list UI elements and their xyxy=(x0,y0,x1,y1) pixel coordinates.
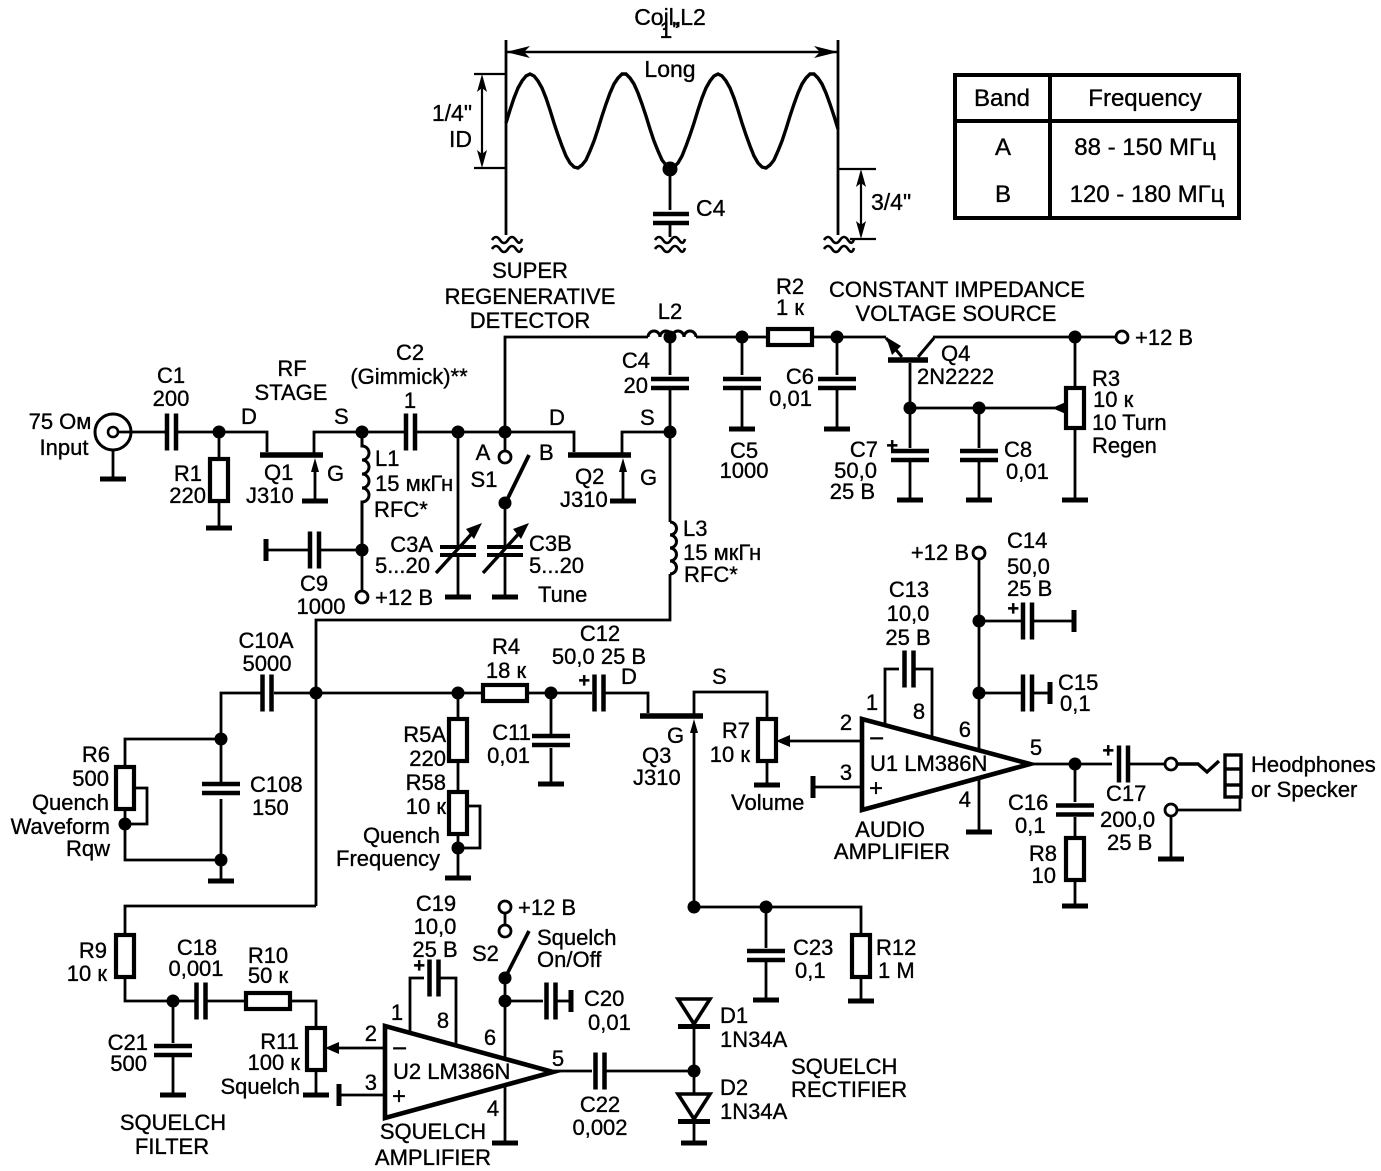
svg-text:On/Off: On/Off xyxy=(537,947,602,972)
wire R8 to ground xyxy=(1074,880,1077,904)
wire output node to C16 xyxy=(1074,764,1077,802)
svg-text:10 к: 10 к xyxy=(1093,387,1134,412)
wire U1 pin3 xyxy=(813,786,862,789)
terminal +12V xyxy=(973,547,985,559)
terminal +12V xyxy=(1116,331,1128,343)
wire C16 to R8 xyxy=(1074,817,1077,838)
wire U1 pin4 to ground xyxy=(978,777,981,830)
ground D2 xyxy=(681,1142,707,1144)
ground Q2 gate xyxy=(610,500,636,502)
svg-text:R9: R9 xyxy=(79,938,107,963)
wire C8 to ground xyxy=(978,462,981,498)
svg-text:D1: D1 xyxy=(720,1003,748,1028)
switch S2 terminal top xyxy=(499,901,511,913)
wire C12 to Q3 drain xyxy=(604,693,648,713)
svg-text:0,01: 0,01 xyxy=(487,743,530,768)
wire input to ground xyxy=(112,450,115,477)
wire quench line to R9 xyxy=(125,906,316,935)
node C11 xyxy=(545,687,558,700)
node S2 pivot xyxy=(499,972,512,985)
node A xyxy=(213,426,226,439)
resistor R2 xyxy=(768,329,812,345)
wire U1 pin6 to +12V xyxy=(978,559,981,751)
ground C21 xyxy=(160,1094,186,1096)
node C21 xyxy=(167,995,180,1008)
svg-text:5...20: 5...20 xyxy=(529,553,584,578)
wire node to C8 xyxy=(978,408,981,448)
svg-text:25 В: 25 В xyxy=(412,937,457,962)
svg-text:3: 3 xyxy=(840,760,852,785)
transistor Q2 gate arrow xyxy=(619,458,627,472)
svg-text:10 Turn: 10 Turn xyxy=(1092,410,1167,435)
svg-text:0,1: 0,1 xyxy=(795,958,826,983)
node C23 xyxy=(760,901,773,914)
wire C108 xyxy=(220,739,223,784)
svg-text:G: G xyxy=(640,465,657,490)
svg-text:C9: C9 xyxy=(300,571,328,596)
svg-text:+: + xyxy=(1102,740,1114,762)
wire R7 to ground xyxy=(766,761,769,783)
wire tap to C4 xyxy=(669,337,672,375)
svg-text:AMPLIFIER: AMPLIFIER xyxy=(834,839,950,864)
potentiometer R3 xyxy=(1066,388,1084,428)
wire node to C10A xyxy=(274,692,316,695)
transistor Q2 channel xyxy=(568,452,631,458)
svg-text:Volume: Volume xyxy=(731,790,804,815)
svg-text:REGENERATIVE: REGENERATIVE xyxy=(445,284,616,309)
svg-text:0,001: 0,001 xyxy=(168,956,223,981)
svg-text:10,0: 10,0 xyxy=(414,914,457,939)
svg-text:Heodphones: Heodphones xyxy=(1251,752,1376,777)
node L2 tap xyxy=(664,331,677,344)
svg-text:+12 В: +12 В xyxy=(518,895,576,920)
svg-text:220: 220 xyxy=(409,746,446,771)
svg-text:D: D xyxy=(549,405,565,430)
svg-text:1000: 1000 xyxy=(297,594,346,619)
resistor R5A xyxy=(449,719,467,761)
switch S2 terminal bottom xyxy=(499,925,511,937)
wire R2 to Q4 emitter xyxy=(812,336,886,339)
wire R9 to node xyxy=(125,977,197,1001)
capacitor C6 xyxy=(818,379,856,388)
node C14 xyxy=(973,615,986,628)
wire C14 to bar xyxy=(1032,620,1072,623)
ground squiggle left xyxy=(492,237,522,252)
resistor R8 xyxy=(1066,838,1084,880)
svg-text:C14: C14 xyxy=(1007,528,1047,553)
svg-text:J310: J310 xyxy=(246,483,294,508)
coil left lead wire xyxy=(505,40,508,235)
svg-text:L3: L3 xyxy=(683,516,707,541)
ground R58 xyxy=(445,877,471,879)
ground R7 xyxy=(754,784,780,786)
ground R3 xyxy=(1062,499,1088,501)
svg-text:R6: R6 xyxy=(82,742,110,767)
jack tip contact xyxy=(1177,761,1219,772)
svg-text:STAGE: STAGE xyxy=(255,380,328,405)
wire center tap down xyxy=(669,169,672,210)
svg-text:10 к: 10 к xyxy=(710,742,751,767)
svg-text:1: 1 xyxy=(866,690,878,715)
svg-text:C10A: C10A xyxy=(238,628,293,653)
wire detector node up to L2 xyxy=(505,337,648,432)
wire sleeve to ground xyxy=(1170,816,1173,857)
wire C7 to ground xyxy=(909,462,912,498)
svg-text:1: 1 xyxy=(404,388,416,413)
capacitor C16 xyxy=(1056,806,1094,815)
node R58 wiper xyxy=(452,842,465,855)
wire U2 pin5 to C22 xyxy=(553,1070,592,1073)
svg-text:R12: R12 xyxy=(876,935,916,960)
svg-text:200: 200 xyxy=(153,386,190,411)
svg-text:RECTIFIER: RECTIFIER xyxy=(791,1077,907,1102)
switch S1 terminal A xyxy=(499,451,511,463)
transistor Q3 channel xyxy=(640,713,703,719)
svg-text:18 к: 18 к xyxy=(486,658,527,683)
wire R3 to ground xyxy=(1074,428,1077,498)
ground U1 pin4 xyxy=(966,831,992,833)
svg-text:25 В: 25 В xyxy=(885,625,930,650)
node S xyxy=(356,426,369,439)
svg-text:1": 1" xyxy=(660,17,681,43)
svg-text:0,1: 0,1 xyxy=(1015,813,1046,838)
svg-text:0,01: 0,01 xyxy=(769,386,812,411)
terminal jack tip xyxy=(1165,758,1177,770)
svg-text:VOLTAGE SOURCE: VOLTAGE SOURCE xyxy=(856,301,1057,326)
wire R4 to C12 xyxy=(527,692,592,695)
wire R7 wiper to U1 pin2 xyxy=(788,740,862,743)
wire C2 to detector node xyxy=(415,431,505,434)
svg-text:4: 4 xyxy=(959,787,971,812)
svg-text:S: S xyxy=(334,404,349,429)
svg-text:+: + xyxy=(869,775,883,802)
wire node to +12V terminal xyxy=(361,550,364,591)
svg-text:Q1: Q1 xyxy=(264,460,293,485)
svg-text:1/4": 1/4" xyxy=(432,100,472,126)
svg-text:A: A xyxy=(995,134,1011,161)
svg-text:10: 10 xyxy=(1032,863,1056,888)
wire C22 to diode node xyxy=(605,1070,694,1073)
wire L2 to R2 xyxy=(696,336,770,339)
wire U2 pin4 xyxy=(504,1085,507,1141)
ground R8 xyxy=(1062,905,1088,907)
svg-text:J310: J310 xyxy=(560,487,608,512)
svg-text:5: 5 xyxy=(1030,735,1042,760)
ground C3A xyxy=(445,596,471,598)
node center tap xyxy=(663,162,678,177)
node S1 pivot xyxy=(499,497,512,510)
capacitor C15 xyxy=(1023,675,1032,712)
resistor R4 xyxy=(483,685,527,701)
capacitor C108 xyxy=(202,784,240,793)
svg-text:S: S xyxy=(712,664,727,689)
svg-text:R58: R58 xyxy=(406,770,446,795)
svg-text:6: 6 xyxy=(484,1025,496,1050)
wire Q2 drain xyxy=(505,432,574,452)
diode D1 xyxy=(678,999,710,1027)
svg-text:C108: C108 xyxy=(250,772,303,797)
ground Q1 gate xyxy=(302,500,328,502)
svg-text:+12 В: +12 В xyxy=(1135,325,1193,350)
wire Q2 gate to ground xyxy=(622,466,625,499)
wire C108 to ground xyxy=(220,799,223,879)
svg-text:1: 1 xyxy=(391,1000,403,1025)
svg-text:U2 LM386N: U2 LM386N xyxy=(393,1059,510,1084)
node C8 xyxy=(973,402,986,415)
svg-text:C23: C23 xyxy=(793,935,833,960)
ground R11 xyxy=(303,1094,329,1096)
ground C11 xyxy=(538,783,564,785)
svg-text:AMPLIFIER: AMPLIFIER xyxy=(375,1145,491,1170)
svg-text:L2: L2 xyxy=(658,299,682,324)
svg-text:Frequency: Frequency xyxy=(336,846,440,871)
svg-text:4: 4 xyxy=(487,1096,499,1121)
svg-text:U1 LM386N: U1 LM386N xyxy=(870,751,987,776)
svg-text:C2: C2 xyxy=(396,340,424,365)
svg-text:Band: Band xyxy=(974,85,1030,112)
wire C3A to ground xyxy=(457,556,460,595)
svg-text:J310: J310 xyxy=(633,765,681,790)
svg-text:1N34A: 1N34A xyxy=(720,1027,788,1052)
svg-text:0,01: 0,01 xyxy=(1006,459,1049,484)
svg-text:220: 220 xyxy=(169,483,206,508)
wire node to C21 xyxy=(172,1001,175,1043)
svg-text:C20: C20 xyxy=(584,986,624,1011)
wire node to C5 xyxy=(741,337,744,375)
svg-text:D: D xyxy=(241,404,257,429)
inductor L2 xyxy=(648,331,696,337)
capacitor C2 xyxy=(406,414,415,451)
ground C23 xyxy=(753,999,779,1001)
resistor R9 xyxy=(116,935,134,977)
ground input xyxy=(100,478,126,480)
wire C10A left and down xyxy=(221,693,262,739)
svg-text:C19: C19 xyxy=(416,891,456,916)
svg-text:25 В: 25 В xyxy=(1107,830,1152,855)
svg-text:15 мкГн: 15 мкГн xyxy=(375,471,453,496)
svg-text:RFC*: RFC* xyxy=(374,497,428,522)
svg-text:+12 В: +12 В xyxy=(911,540,969,565)
svg-text:1N34A: 1N34A xyxy=(720,1099,788,1124)
wire rectifier line xyxy=(694,907,861,935)
capacitor C5 xyxy=(723,379,761,388)
svg-text:20: 20 xyxy=(624,373,648,398)
svg-text:+12 В: +12 В xyxy=(375,585,433,610)
svg-text:8: 8 xyxy=(913,699,925,724)
wire Q1 gate to ground xyxy=(314,466,317,499)
svg-text:Quench: Quench xyxy=(32,790,109,815)
ground C14 (bar) xyxy=(1073,610,1075,632)
wire C21 to ground xyxy=(172,1057,175,1093)
capacitor C8 xyxy=(960,451,998,460)
svg-text:C4: C4 xyxy=(622,348,650,373)
wire L3 down and left to quench line xyxy=(316,574,670,694)
wire input to C1 xyxy=(119,431,167,434)
svg-text:C22: C22 xyxy=(580,1092,620,1117)
svg-text:150: 150 xyxy=(252,795,289,820)
wire base to R3 wiper xyxy=(910,407,1055,410)
resistor R12 xyxy=(852,935,870,977)
ground C15 (bar) xyxy=(1049,682,1051,704)
node R6 wiper xyxy=(119,818,132,831)
svg-text:ID: ID xyxy=(449,126,472,152)
switch S1 arm xyxy=(505,455,529,504)
svg-text:1000: 1000 xyxy=(720,458,769,483)
svg-text:FILTER: FILTER xyxy=(135,1134,209,1159)
wire R58 to ground xyxy=(457,834,460,876)
ground C5 xyxy=(729,428,755,430)
coil L2 winding xyxy=(506,74,838,168)
svg-text:G: G xyxy=(327,461,344,486)
wire Q3 gate down to squelch rectifier xyxy=(693,727,696,907)
svg-text:L1: L1 xyxy=(375,446,399,471)
dimension line 1" long xyxy=(506,46,838,58)
wire node to L3 xyxy=(669,432,672,522)
capacitor C4 xyxy=(651,379,689,388)
svg-text:+: + xyxy=(1007,598,1019,620)
wire R1 to ground xyxy=(218,501,221,526)
wire node to C15 xyxy=(979,692,1021,695)
capacitor C21 xyxy=(154,1046,192,1055)
svg-text:DETECTOR: DETECTOR xyxy=(470,308,591,333)
node output xyxy=(1069,758,1082,771)
dimension 1/4 ID left xyxy=(474,74,506,168)
potentiometer R58 xyxy=(449,792,467,834)
svg-text:B: B xyxy=(995,181,1011,208)
svg-text:+: + xyxy=(886,435,898,457)
wire C3B to ground xyxy=(504,556,507,595)
op-amp U1 xyxy=(862,719,1030,810)
wire C5 to ground xyxy=(741,390,744,427)
wire R5A to R58 xyxy=(457,761,460,792)
ground squiggle right xyxy=(824,237,854,252)
svg-text:D: D xyxy=(621,664,637,689)
ground C108 xyxy=(208,880,234,882)
svg-text:(Gimmick)**: (Gimmick)** xyxy=(350,364,468,389)
node detector xyxy=(499,426,512,439)
wire C15 to bar xyxy=(1032,692,1048,695)
wire below C4 xyxy=(669,225,672,237)
capacitor C14 xyxy=(1023,603,1032,640)
svg-text:S1: S1 xyxy=(471,467,498,492)
svg-text:8: 8 xyxy=(437,1008,449,1033)
wire C1 to Q1 drain xyxy=(176,432,267,452)
svg-text:120 - 180 МГц: 120 - 180 МГц xyxy=(1070,181,1225,208)
transistor Q3 gate arrow xyxy=(690,719,698,733)
wire C18 to R10 xyxy=(206,1000,246,1003)
potentiometer R7 xyxy=(758,719,776,761)
variable capacitor C3B xyxy=(487,547,523,555)
svg-text:RFC*: RFC* xyxy=(684,562,738,587)
ground U2 pin3 (bar) xyxy=(338,1084,340,1106)
svg-text:SQUELCH: SQUELCH xyxy=(791,1054,897,1079)
svg-text:10,0: 10,0 xyxy=(887,601,930,626)
svg-text:3: 3 xyxy=(365,1070,377,1095)
node C15 xyxy=(973,687,986,700)
node C20 xyxy=(499,995,512,1008)
svg-text:2N2222: 2N2222 xyxy=(917,364,994,389)
wire node to C23 xyxy=(765,907,768,948)
svg-text:+: + xyxy=(578,670,590,692)
svg-text:10 к: 10 к xyxy=(406,794,447,819)
diode D2 xyxy=(678,1094,710,1122)
wire node to R6 xyxy=(125,739,221,767)
svg-text:25 В: 25 В xyxy=(1007,576,1052,601)
ground jack xyxy=(1158,858,1184,860)
wire C9 to terminal xyxy=(268,549,310,552)
capacitor C17 xyxy=(1119,746,1128,783)
resistor R10 xyxy=(246,993,290,1009)
wire C4 to node S xyxy=(669,390,672,432)
svg-text:S2: S2 xyxy=(472,941,499,966)
wire +12V node to R3 xyxy=(1074,337,1077,388)
wire node to C20 xyxy=(505,1000,543,1003)
svg-text:SUPER: SUPER xyxy=(492,258,568,283)
svg-text:5: 5 xyxy=(552,1046,564,1071)
wire Q2 source to node xyxy=(622,432,670,455)
capacitor C10A xyxy=(263,675,272,712)
wire U1 pin5 output xyxy=(1030,763,1112,766)
ground C9 (bar) xyxy=(265,539,267,561)
svg-text:88 - 150 МГц: 88 - 150 МГц xyxy=(1074,134,1216,161)
svg-text:0,002: 0,002 xyxy=(572,1115,627,1140)
node C108 top xyxy=(215,733,228,746)
svg-text:10 к: 10 к xyxy=(67,961,108,986)
wire D2 to ground xyxy=(693,1123,696,1141)
svg-text:Rqw: Rqw xyxy=(66,836,110,861)
svg-text:R7: R7 xyxy=(722,718,750,743)
wire R6 down and right xyxy=(125,809,221,860)
potentiometer R11 xyxy=(307,1028,325,1070)
node squelch rectifier top xyxy=(688,901,701,914)
transistor Q1 channel xyxy=(260,452,323,458)
capacitor C9 xyxy=(310,532,319,569)
svg-text:2: 2 xyxy=(840,710,852,735)
svg-text:50 к: 50 к xyxy=(248,963,289,988)
svg-text:−: − xyxy=(869,723,884,753)
capacitor C23 xyxy=(747,951,785,960)
dimension 3/4 right xyxy=(838,169,876,239)
svg-text:C1: C1 xyxy=(157,363,185,388)
svg-text:C13: C13 xyxy=(889,577,929,602)
wire D1 to D2 xyxy=(693,1028,696,1095)
svg-text:SQUELCH: SQUELCH xyxy=(380,1119,486,1144)
svg-text:R4: R4 xyxy=(492,634,520,659)
node +12V rail xyxy=(1069,331,1082,344)
inductor L1 xyxy=(362,432,369,550)
transistor Q4 2N2222 xyxy=(886,337,934,408)
svg-text:SQUELCH: SQUELCH xyxy=(120,1110,226,1135)
svg-text:G: G xyxy=(667,723,684,748)
wire node to C14 xyxy=(979,620,1021,623)
wire Q1 source to node xyxy=(314,432,404,455)
svg-text:5000: 5000 xyxy=(243,651,292,676)
capacitor C22 xyxy=(596,1053,605,1090)
wire node to C6 xyxy=(836,337,839,375)
variable capacitor C3A xyxy=(440,547,476,555)
node C5 xyxy=(736,331,749,344)
switch S2 arm xyxy=(505,931,529,978)
wire Q4 collector to +12V xyxy=(933,336,1116,339)
wire node to S1 A xyxy=(504,432,507,451)
svg-text:RF: RF xyxy=(277,356,306,381)
svg-text:C16: C16 xyxy=(1008,790,1048,815)
wire node to R1 xyxy=(218,432,221,459)
node R5A xyxy=(452,687,465,700)
coil right lead wire xyxy=(837,40,840,235)
wire node to C9 xyxy=(320,549,362,552)
capacitor C19 loop xyxy=(410,978,424,1034)
